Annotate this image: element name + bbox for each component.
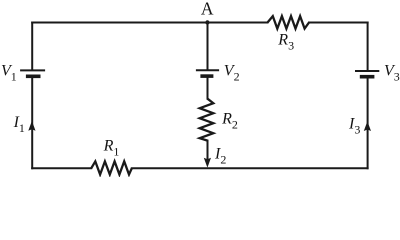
wire bottom-right horizontal segment xyxy=(132,167,368,169)
svg-text:R2: R2 xyxy=(221,111,238,132)
wire top-left horizontal segment xyxy=(32,22,267,24)
battery V2 long plate xyxy=(196,69,219,71)
svg-text:R3: R3 xyxy=(277,31,294,52)
wire middle vertical below R2 xyxy=(207,141,209,164)
svg-text:R1: R1 xyxy=(103,137,120,158)
svg-text:V2: V2 xyxy=(224,62,240,83)
wire middle vertical upper segment xyxy=(207,23,209,70)
current arrowhead I2 xyxy=(204,158,211,168)
battery V3 long plate xyxy=(355,70,379,72)
battery V2 short plate xyxy=(200,74,213,78)
wire bottom-left horizontal segment xyxy=(32,167,91,169)
svg-text:I1: I1 xyxy=(13,114,25,135)
resistor R2 xyxy=(200,99,214,141)
wire left vertical lower segment xyxy=(31,77,33,168)
resistor R3 xyxy=(268,16,310,29)
wire left vertical upper segment xyxy=(31,23,33,70)
current arrowhead I1 xyxy=(28,121,35,131)
svg-text:V3: V3 xyxy=(384,62,400,83)
svg-text:A: A xyxy=(201,0,214,18)
node A junction dot xyxy=(205,20,209,24)
battery V3 short plate xyxy=(360,75,375,79)
wire top-right horizontal segment xyxy=(309,22,368,24)
svg-text:I3: I3 xyxy=(348,115,360,136)
wire right vertical upper segment xyxy=(367,23,369,71)
svg-text:V1: V1 xyxy=(1,63,17,84)
wire right vertical lower segment xyxy=(367,78,369,169)
current arrowhead I3 xyxy=(364,121,371,131)
resistor R1 xyxy=(91,161,132,174)
battery V1 short plate xyxy=(26,75,41,79)
battery V1 long plate xyxy=(20,69,45,71)
svg-text:I2: I2 xyxy=(214,145,226,166)
wire middle vertical between V2 and R2 xyxy=(207,77,209,99)
